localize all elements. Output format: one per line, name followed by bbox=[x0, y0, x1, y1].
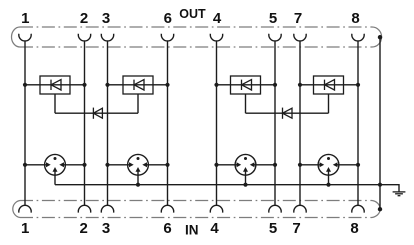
terminal socket contact 5 (top) bbox=[269, 34, 281, 41]
svg-text:2: 2 bbox=[80, 10, 88, 27]
terminal socket contact 8 (top) bbox=[352, 34, 364, 41]
junction node line 6 / box F2 bbox=[165, 83, 169, 87]
wire: signal line 8 (top terminal to bottom terminal) bbox=[357, 41, 359, 206]
gas discharge tube F7 gas dot bbox=[244, 157, 247, 160]
diode V2: cathode bar bbox=[282, 108, 284, 119]
wire: box F4 to line 8 bbox=[344, 84, 359, 86]
junction node line 2 / GDT F5 bbox=[82, 163, 86, 167]
wire: signal line 6 (top terminal to bottom terminal) bbox=[167, 41, 169, 206]
suppressor diode module box F4 (lines 7-8) bbox=[314, 76, 344, 94]
wire: stem from box F1 bottom to diode link bbox=[54, 94, 56, 113]
diode symbol in box F1: triangle bbox=[51, 80, 61, 90]
GDT F6 earth electrode arrowhead bbox=[136, 167, 141, 172]
junction node line 5 / box F3 bbox=[273, 83, 277, 87]
GDT F8 left electrode arrowhead bbox=[320, 162, 325, 167]
GDT F8 right electrode arrowhead bbox=[333, 162, 338, 167]
wire: diode link line between box stems (2) bbox=[246, 112, 329, 114]
GDT F6 right electrode arrowhead bbox=[142, 162, 147, 167]
terminal socket contact 2 (top) bbox=[78, 34, 90, 41]
wire: bottom boundary dash-dot line upper bbox=[20, 200, 372, 202]
junction node GDT F8 stem / earth bus bbox=[326, 183, 330, 187]
junction node line 1 / GDT F5 bbox=[23, 163, 27, 167]
junction node line 1 / box F1 bbox=[23, 83, 27, 87]
svg-text:7: 7 bbox=[294, 10, 302, 27]
suppressor diode module box F2 (lines 3-6) bbox=[123, 76, 153, 94]
suppressor diode module box F3 (lines 4-5) bbox=[231, 76, 261, 94]
wire: top boundary dash-dot line lower bbox=[20, 46, 372, 48]
wire: box F3 to line 5 bbox=[261, 84, 276, 86]
terminal socket contact 5 (bottom) bbox=[269, 205, 281, 212]
junction node GDT F6 stem / earth bus bbox=[136, 183, 140, 187]
terminal socket contact 7 (bottom) bbox=[294, 205, 306, 212]
junction node earth riser / top boundary bbox=[378, 35, 382, 39]
terminal socket contact 1 (bottom) bbox=[19, 205, 31, 212]
terminal socket contact 8 (bottom) bbox=[352, 205, 364, 212]
wire: diode lead inside box F2 bbox=[123, 84, 153, 86]
junction node line 4 / box F3 bbox=[214, 83, 218, 87]
gas discharge tube F6 circle (lines 3-6) bbox=[128, 154, 149, 175]
junction node line 5 / GDT F7 bbox=[273, 163, 277, 167]
GDT F8 earth electrode arrowhead bbox=[326, 167, 331, 172]
gas discharge tube F8 circle (lines 7-8) bbox=[318, 154, 339, 175]
wire: line 1 to GDT F5 left electrode bbox=[25, 164, 47, 166]
wire: signal line 2 (top terminal to bottom terminal) bbox=[84, 41, 86, 206]
wire: stem from box F2 bottom to diode link bbox=[137, 94, 139, 113]
svg-text:1: 1 bbox=[21, 220, 29, 237]
GDT F5 left electrode arrowhead bbox=[46, 162, 51, 167]
terminal socket contact 2 (bottom) bbox=[78, 205, 90, 212]
wire: diode lead inside box F3 bbox=[231, 84, 261, 86]
diode symbol in box F3: cathode bar bbox=[241, 80, 243, 90]
wire: lead line 3 to box F2 bbox=[108, 84, 124, 86]
wire: lead line 4 to box F3 bbox=[217, 84, 231, 86]
GDT F5 earth electrode arrowhead bbox=[53, 167, 58, 172]
junction node line 3 / box F2 bbox=[105, 83, 109, 87]
ground (earth) symbol bbox=[393, 192, 406, 196]
diode symbol in box F3: triangle bbox=[242, 80, 252, 90]
diode symbol in box F4: cathode bar bbox=[324, 80, 326, 90]
wire: stem from box F4 bottom to diode link bbox=[328, 94, 330, 113]
wire: top boundary dash-dot line upper bbox=[20, 26, 372, 28]
gas discharge tube F8 gas dot bbox=[327, 157, 330, 160]
wire: stem from box F3 bottom to diode link bbox=[245, 94, 247, 113]
diode symbol in box F4: triangle bbox=[325, 80, 335, 90]
svg-text:4: 4 bbox=[213, 10, 222, 27]
wire: line 7 to GDT F8 left electrode bbox=[300, 164, 320, 166]
wire: box F2 to line 6 bbox=[153, 84, 168, 86]
svg-text:8: 8 bbox=[350, 220, 358, 237]
wire: earth riser line (right side) bbox=[379, 37, 381, 209]
svg-text:1: 1 bbox=[21, 10, 29, 27]
junction node line 4 / GDT F7 bbox=[214, 163, 218, 167]
wire: bottom boundary dash-dot line lower bbox=[20, 217, 372, 219]
diode V1: triangle bbox=[93, 108, 102, 118]
gas discharge tube F5 circle (lines 1-2) bbox=[45, 154, 66, 175]
svg-text:3: 3 bbox=[102, 220, 110, 237]
terminal socket contact 7 (top) bbox=[294, 34, 306, 41]
svg-text:6: 6 bbox=[164, 10, 172, 27]
wire: GDT F6 right electrode to line 6 bbox=[146, 164, 167, 166]
gas discharge tube F5 gas dot bbox=[54, 157, 57, 160]
terminal socket contact 4 (top) bbox=[210, 34, 222, 41]
junction node GDT F7 stem / earth bus bbox=[243, 183, 247, 187]
GDT F7 left electrode arrowhead bbox=[237, 162, 242, 167]
wire: line 3 to GDT F6 left electrode bbox=[108, 164, 130, 166]
wire: common earth bus bbox=[55, 184, 380, 186]
GDT F7 earth electrode arrowhead bbox=[243, 167, 248, 172]
wire: GDT F5 earth electrode stem bbox=[54, 171, 56, 184]
GDT F5 right electrode arrowhead bbox=[59, 162, 64, 167]
svg-text:8: 8 bbox=[351, 10, 359, 27]
svg-text:6: 6 bbox=[163, 220, 171, 237]
wire: box F1 to line 2 bbox=[70, 84, 85, 86]
junction node earth riser / bottom boundary bbox=[378, 207, 382, 211]
wire: lead line 1 to box F1 bbox=[25, 84, 40, 86]
svg-text:IN: IN bbox=[185, 223, 199, 238]
junction node earth bus / earth riser bbox=[378, 183, 382, 187]
terminal socket contact 3 (bottom) bbox=[101, 205, 113, 212]
svg-text:5: 5 bbox=[269, 10, 277, 27]
svg-text:2: 2 bbox=[80, 220, 88, 237]
junction node line 8 / box F4 bbox=[356, 83, 360, 87]
wire: GDT F7 right electrode to line 5 bbox=[254, 164, 275, 166]
junction node line 8 / GDT F8 bbox=[356, 163, 360, 167]
junction node line 7 / box F4 bbox=[298, 83, 302, 87]
wire: boundary right top U-curve bbox=[372, 27, 382, 47]
junction node line 3 / GDT F6 bbox=[105, 163, 109, 167]
terminal socket contact 6 (top) bbox=[161, 34, 173, 41]
svg-text:OUT: OUT bbox=[179, 7, 206, 21]
diode V1: cathode bar bbox=[92, 108, 94, 119]
svg-text:4: 4 bbox=[210, 220, 219, 237]
wire: GDT F8 earth electrode stem bbox=[328, 171, 330, 184]
gas discharge tube F7 circle (lines 4-5) bbox=[235, 154, 256, 175]
wire: signal line 5 (top terminal to bottom terminal) bbox=[274, 41, 276, 206]
wire: lead line 7 to box F4 bbox=[300, 84, 314, 86]
wire: diode lead inside box F4 bbox=[314, 84, 344, 86]
diode V2: triangle bbox=[283, 108, 293, 118]
wire: GDT F7 earth electrode stem bbox=[245, 171, 247, 184]
svg-text:7: 7 bbox=[292, 220, 300, 237]
wire: branch to ground symbol bbox=[380, 185, 399, 192]
wire: GDT F5 right electrode to line 2 bbox=[63, 164, 84, 166]
junction node line 2 / box F1 bbox=[82, 83, 86, 87]
diode symbol in box F1: cathode bar bbox=[50, 80, 52, 90]
wire: GDT F6 earth electrode stem bbox=[137, 171, 139, 184]
svg-text:3: 3 bbox=[102, 10, 110, 27]
wire: signal line 7 (top terminal to bottom terminal) bbox=[299, 41, 301, 206]
wire: diode lead inside box F1 bbox=[40, 84, 70, 86]
wire: boundary right bottom U-curve bbox=[372, 201, 380, 218]
terminal socket contact 3 (top) bbox=[101, 34, 113, 41]
wire: boundary left bottom U-curve bbox=[13, 201, 20, 218]
diode symbol in box F2: cathode bar bbox=[133, 80, 135, 90]
wire: boundary left top U-curve bbox=[12, 27, 20, 47]
wire: signal line 4 (top terminal to bottom terminal) bbox=[216, 41, 218, 206]
junction node line 6 / GDT F6 bbox=[165, 163, 169, 167]
diode symbol in box F2: triangle bbox=[134, 80, 144, 90]
svg-text:5: 5 bbox=[269, 220, 277, 237]
terminal socket contact 6 (bottom) bbox=[161, 205, 173, 212]
wire: signal line 3 (top terminal to bottom terminal) bbox=[107, 41, 109, 206]
gas discharge tube F6 gas dot bbox=[137, 157, 140, 160]
terminal socket contact 4 (bottom) bbox=[210, 205, 222, 212]
GDT F7 right electrode arrowhead bbox=[250, 162, 255, 167]
wire: signal line 1 (top terminal to bottom terminal) bbox=[24, 41, 26, 206]
wire: diode link line between box stems (1) bbox=[55, 112, 138, 114]
junction node line 7 / GDT F8 bbox=[298, 163, 302, 167]
GDT F6 left electrode arrowhead bbox=[129, 162, 134, 167]
terminal socket contact 1 (top) bbox=[19, 34, 31, 41]
wire: line 4 to GDT F7 left electrode bbox=[217, 164, 238, 166]
wire: GDT F8 right electrode to line 8 bbox=[337, 164, 358, 166]
suppressor diode module box F1 (lines 1-2) bbox=[40, 76, 70, 94]
